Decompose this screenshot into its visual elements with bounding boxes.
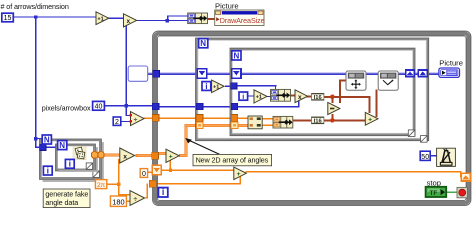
svg-text:+1: +1 xyxy=(97,16,103,22)
wire: +1 to multiply (y=18) xyxy=(109,18,125,19)
shift register: left (rotation) on while loop xyxy=(152,165,161,174)
tunnel: radius orange through For2 border xyxy=(231,115,238,122)
wire: cluster I16b to plus (y=120.3) xyxy=(324,119,366,121)
increment node +1 (top) xyxy=(96,12,109,25)
shift register: right (picture) on For2 xyxy=(406,70,415,77)
wire: plus output up to draw-line input xyxy=(375,90,377,118)
svg-text:÷: ÷ xyxy=(134,196,138,203)
increment node +1 (For2 i) xyxy=(254,90,267,103)
wire: +1 to bundle lower input xyxy=(266,96,272,97)
svg-text:+1: +1 xyxy=(256,95,262,101)
count terminal N (fake loop A) xyxy=(42,135,51,144)
svg-text:Picture: Picture xyxy=(439,58,463,67)
wait until next ms multiple (metronome) xyxy=(437,148,456,166)
shift register: right (picture) on For1 xyxy=(418,70,427,77)
tunnel: auto-indexing angle array through For2 border xyxy=(231,122,238,129)
node maroon junction 2 xyxy=(330,118,335,123)
wire: 0 constant to left shift register xyxy=(148,172,153,174)
wire: 2D angle array row into polar node (y=125.4) xyxy=(185,124,249,127)
fake-data for loop A border xyxy=(41,140,100,178)
wire: cluster bundle2 to I16b xyxy=(293,119,312,121)
svg-text:x: x xyxy=(127,18,131,25)
wire: tunnel to add1 top input (2D) xyxy=(158,152,167,155)
wire: vertical branch of 15-wire down to fake-data loops xyxy=(35,17,36,148)
for loop 1 resize corner xyxy=(421,136,428,143)
add node (vector tip) xyxy=(365,112,378,125)
fake-data for loop A resize corner xyxy=(93,171,100,178)
wire: riser x=369 down to plus top xyxy=(368,97,370,113)
svg-text:angle data: angle data xyxy=(45,198,78,207)
tunnel: radius orange through while border xyxy=(152,115,159,122)
svg-text:i: i xyxy=(242,92,244,101)
tunnel: random angles into while loop xyxy=(152,152,159,159)
svg-text:x: x xyxy=(123,153,127,160)
wire: N feed to fake loop B through tunnel (y=147.3) xyxy=(35,147,58,148)
add node (angles + rotation) xyxy=(166,149,179,162)
wire: cluster from bundle to DrawAreaSize property xyxy=(207,18,216,20)
for loop 2 border xyxy=(231,49,414,134)
property node Picture:DrawAreaSize xyxy=(215,10,265,26)
tunnel: auto-indexing angle array through For1 border xyxy=(196,122,203,129)
svg-text:2π: 2π xyxy=(97,182,106,189)
iteration terminal i (while loop) xyxy=(158,187,167,197)
wire: multiply output to bundle (y=20.5) xyxy=(137,20,189,21)
bundle node (draw area size) xyxy=(188,13,208,24)
indicator terminal Picture xyxy=(439,68,460,77)
wire: 180 to divide2 bottom input xyxy=(127,201,132,203)
while loop border xyxy=(155,34,469,204)
wire: bundle upper input feed (y=15.5) xyxy=(167,15,189,16)
node junction on SR row xyxy=(169,169,172,172)
bundle node (vector point) xyxy=(273,116,293,128)
wire: picture dashed move-pen to draw-line xyxy=(366,73,378,74)
wire: orange radius row to polar node (y=118) xyxy=(155,117,249,119)
svg-text:I16: I16 xyxy=(314,95,323,101)
wire: minus output up to move-pen input xyxy=(339,80,341,104)
free label: generate fake angle data xyxy=(43,189,90,208)
svg-text:N: N xyxy=(59,141,65,150)
tunnel: blue scalar through For2 border xyxy=(231,103,238,110)
shift register: right (rotation) on while loop xyxy=(461,173,470,181)
for loop 1 border xyxy=(197,39,428,139)
wire: cluster multiply to I16a xyxy=(307,95,313,97)
random number dice icon xyxy=(73,146,86,160)
numeric control terminal "40" (pixels/arrowbox) xyxy=(93,101,105,110)
wire: picture dashed tunnel to SR1 xyxy=(159,73,198,74)
wire: add1 output to angle riser (2D y=155.4) xyxy=(180,154,188,157)
node A junction on 15-wire xyxy=(34,15,37,18)
svg-text:i: i xyxy=(47,165,49,175)
svg-text:N: N xyxy=(200,39,206,48)
picture function: Move Pen xyxy=(346,71,366,90)
wire: empty picture constant to tunnel (y=73.6) xyxy=(148,73,154,74)
constant 2pi xyxy=(95,180,106,189)
svg-text:I16: I16 xyxy=(314,119,323,125)
wire: 2D angle array riser (x=185.7) xyxy=(185,124,188,155)
wire: divide output to outer tunnel (orange y=118.4) xyxy=(143,118,155,120)
wire: stub into divide upper input xyxy=(126,115,132,116)
multiply node (point x pixels) xyxy=(295,90,308,103)
wire: cluster polar to bundle2 (two stubs) xyxy=(262,118,274,120)
count terminal N (For2) xyxy=(232,51,241,61)
svg-text:+: + xyxy=(368,117,372,124)
numeric constant 50 xyxy=(420,151,430,161)
tunnel: blue scalar through For1 border xyxy=(196,103,203,110)
numeric control terminal "15" (# of arrows/dimension) xyxy=(2,13,14,22)
svg-text:0: 0 xyxy=(142,171,146,178)
wire: 50 to metronome (y=155.6) xyxy=(430,155,437,156)
node junction on N feed xyxy=(34,137,37,140)
subtract node xyxy=(328,102,340,114)
bundle node (grid point) xyxy=(271,89,291,101)
for loop 2 resize corner xyxy=(408,130,415,137)
wire: 40 terminal to outer loop tunnel (y=105.7) xyxy=(105,105,155,107)
svg-text:stop: stop xyxy=(427,179,441,188)
iteration terminal i (For2) xyxy=(239,92,248,101)
wire: picture out to Picture indicator xyxy=(428,73,440,74)
svg-text:÷: ÷ xyxy=(134,116,138,123)
svg-text:i: i xyxy=(162,187,164,197)
svg-text:x: x xyxy=(298,94,302,101)
polar to x/y node xyxy=(248,116,262,129)
wire: riser SR row to add1 bottom input xyxy=(170,161,172,171)
count terminal N (fake loop B) xyxy=(58,141,67,150)
wire: 2 constant to divide lower input xyxy=(121,121,131,122)
svg-text:pixels/arrowbox: pixels/arrowbox xyxy=(42,103,91,112)
wire: picture dashed SR2 to move-pen xyxy=(241,73,346,74)
svg-text:i: i xyxy=(205,81,207,91)
divide node (2pi/180) xyxy=(130,191,145,206)
tunnel: count wire into fake loop A xyxy=(40,144,46,150)
conversion node I16 (a) xyxy=(312,93,324,101)
svg-text:N: N xyxy=(234,51,240,60)
boolean control terminal stop xyxy=(426,187,447,197)
svg-text:DrawAreaSize: DrawAreaSize xyxy=(220,16,265,25)
wire: multiply lower input vertical (x=126) xyxy=(126,25,127,116)
wire: increment row from tunnel to add2 bottom (y=183.7) xyxy=(156,183,241,185)
numeric constant "2" xyxy=(113,117,121,126)
free label: New 2D array of angles (with arrow) xyxy=(185,138,271,166)
wire: cluster bundle to pixel multiply xyxy=(291,94,296,96)
iteration terminal i (fake loop A) xyxy=(43,165,52,175)
iteration terminal i (fake loop B) xyxy=(65,159,74,169)
shift register: left (picture) on For1 xyxy=(197,69,206,78)
wire: random 2D x 2pi into outer tunnel (y=155.3) xyxy=(136,154,154,157)
wire: picture dashed SR1 to SR2 xyxy=(207,73,232,74)
wire: add2 output long run to right shift register (y=171.6) xyxy=(246,171,462,173)
wire: divide2 output right then up into tunnel (increment) xyxy=(146,197,149,199)
tunnel: radius orange through For1 border xyxy=(196,115,203,122)
wire: dropper 2pi to divide2 top input xyxy=(118,184,120,195)
wire: picture dashed draw-line to right SRs xyxy=(398,73,406,74)
svg-text:New 2D array of angles: New 2D array of angles xyxy=(196,156,269,165)
shift register: left (picture) on For2 xyxy=(232,69,241,78)
tunnel: picture wire through while border xyxy=(153,70,160,77)
svg-text:+: + xyxy=(237,171,241,178)
svg-text:2: 2 xyxy=(115,119,119,126)
wire: riser from blue row to pixel multiply (x=299) xyxy=(298,101,299,107)
svg-text:Picture: Picture xyxy=(215,2,239,11)
svg-text:# of arrows/dimension: # of arrows/dimension xyxy=(1,2,69,11)
tunnel: dice 2D out of fake loop A xyxy=(98,152,104,158)
node junction before bundle xyxy=(166,19,169,22)
wire: tunnel to bundle top input (y=85.8) xyxy=(237,85,276,86)
wire: riser into add2 bottom input xyxy=(240,177,242,185)
wire: i2 to +1 (y=96) xyxy=(248,95,255,96)
wire: dice 2D array out of fake loops (y=154.8) xyxy=(103,154,120,157)
wire: 2pi constant feed (y=184.2) xyxy=(107,183,120,185)
conversion node I16 (b) xyxy=(312,117,324,125)
wire: 15 terminal to +1 (y=17) xyxy=(13,16,96,17)
iteration terminal i (For1) xyxy=(202,81,211,91)
loop condition terminal (stop sign) xyxy=(457,187,467,197)
divide node (arrowbox/2) xyxy=(130,112,144,126)
multiply node (dice x 2pi) xyxy=(120,148,135,163)
wire: shift register value row to add2 (y=170.3) xyxy=(161,170,234,172)
wire: riser to bundle upper input xyxy=(167,15,168,20)
wire: x=332 stub from minus bottom to lower row xyxy=(331,114,333,122)
node maroon junction 1 xyxy=(330,95,335,100)
svg-text:+1: +1 xyxy=(213,85,219,91)
tunnel: dice 2D out of fake loop B xyxy=(91,152,97,158)
node junction of 40-wire and vertical xyxy=(125,104,128,107)
svg-text:N: N xyxy=(44,135,50,144)
svg-text:50: 50 xyxy=(421,154,429,161)
svg-text:40: 40 xyxy=(95,104,103,111)
numeric constant 180 xyxy=(110,196,126,206)
tunnel: i+1 into For2 xyxy=(231,83,237,89)
fake-data for loop B border xyxy=(57,145,94,169)
svg-text:TF: TF xyxy=(429,190,437,197)
empty picture constant xyxy=(128,66,148,81)
picture function: Draw Line xyxy=(378,71,398,90)
multiply node (top) xyxy=(124,14,137,27)
fake-data for loop B resize corner xyxy=(86,163,92,169)
tunnel: blue scalar through while border xyxy=(152,103,159,110)
wire: x=332 stub to minus top xyxy=(331,97,333,103)
wire: blue scalar row inside loops (y=106.4) xyxy=(155,106,300,108)
increment node +1 (For1 i) xyxy=(212,80,225,93)
wire: boolean stop terminal to loop condition xyxy=(447,192,458,193)
node junction on 2pi wire xyxy=(117,183,120,186)
svg-text:180: 180 xyxy=(112,197,124,206)
svg-text:i: i xyxy=(69,159,71,169)
coercion dots on divide xyxy=(130,114,132,116)
wire: cluster I16a to plus riser (y=96.8) xyxy=(324,96,371,98)
svg-text:15: 15 xyxy=(4,15,12,22)
wire: For1 i+1 into For2 tunnel (y=86.2) xyxy=(225,86,232,87)
wire: riser 2pi to multiply bottom input xyxy=(118,159,120,184)
svg-text:+: + xyxy=(169,154,173,161)
numeric constant 0 xyxy=(140,169,147,178)
wire: drop into right shift register xyxy=(460,171,462,178)
count terminal N (For1) xyxy=(199,39,208,49)
wire: N feed to fake loop A (y=138.5) xyxy=(35,138,42,139)
add node (rotation increment) xyxy=(234,167,247,180)
tunnel: increment into while loop xyxy=(149,180,156,187)
